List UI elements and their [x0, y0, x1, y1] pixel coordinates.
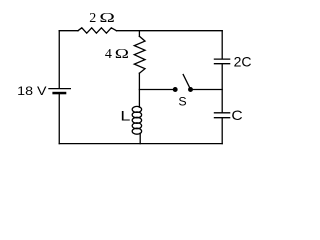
svg-text:Ω: Ω: [115, 47, 129, 62]
resistor R1 2Ω zigzag: [78, 28, 117, 33]
switch S lever: [183, 75, 190, 89]
svg-text:18 V: 18 V: [17, 84, 47, 98]
svg-text:L: L: [120, 108, 130, 124]
inductor L coil loop 3: [132, 117, 141, 123]
wire middle branch top stub: [138, 31, 140, 37]
inductor L coil loop 1: [132, 106, 141, 112]
battery B1 long plate: [48, 88, 71, 90]
inductor L coil loop 5: [132, 128, 141, 134]
battery B1 short plate: [52, 92, 66, 95]
svg-text:Ω: Ω: [99, 11, 115, 26]
wire top-left segment: [59, 30, 78, 32]
wire right branch upper: [221, 31, 223, 59]
wire switch horizontal right: [193, 89, 222, 91]
svg-text:S: S: [178, 95, 186, 109]
wire left branch lower: [58, 94, 60, 143]
resistor R2 4Ω zigzag: [134, 36, 145, 73]
svg-text:4: 4: [105, 47, 112, 62]
wire right branch lower: [221, 118, 223, 144]
switch S right contact dot: [188, 87, 193, 92]
wire inductor bottom stub: [139, 133, 141, 143]
wire left branch upper: [58, 31, 60, 88]
inductor L coil loop 2: [132, 112, 141, 118]
capacitor C top plate: [214, 112, 231, 114]
capacitor C bottom plate: [214, 117, 231, 119]
capacitor 2C bottom plate: [214, 63, 231, 65]
wire right branch middle: [221, 64, 223, 113]
svg-text:2C: 2C: [234, 54, 252, 70]
wire top-right segment: [117, 30, 223, 32]
svg-text:2: 2: [89, 11, 96, 26]
inductor L coil loop 4: [132, 123, 141, 129]
wire switch horizontal left: [139, 89, 173, 91]
wire bottom segment: [59, 143, 222, 145]
wire middle branch to inductor: [138, 73, 140, 107]
switch S left contact dot: [173, 87, 178, 92]
capacitor 2C top plate: [214, 58, 231, 60]
svg-text:C: C: [231, 107, 242, 123]
